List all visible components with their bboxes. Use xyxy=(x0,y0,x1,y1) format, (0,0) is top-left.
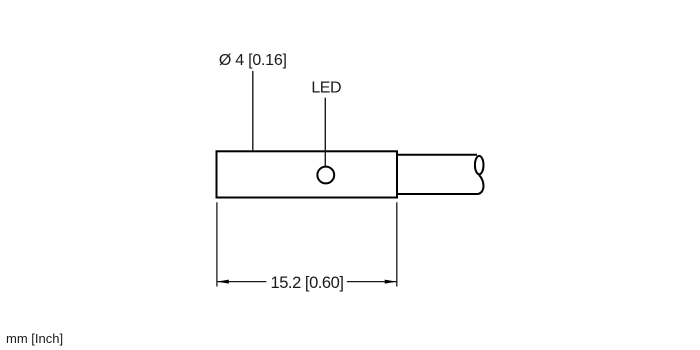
sensor body outline xyxy=(217,151,398,197)
svg-text:mm [Inch]: mm [Inch] xyxy=(6,331,63,346)
leader line from LED label to circle xyxy=(324,98,326,166)
right extension line xyxy=(396,202,398,286)
cable break loop xyxy=(475,156,484,174)
dimension line right segment xyxy=(347,281,397,283)
svg-text:LED: LED xyxy=(311,80,341,97)
leader line from diameter label to body xyxy=(252,71,254,150)
dimension line left segment xyxy=(217,281,266,283)
cable top line xyxy=(398,154,478,156)
left dimension arrow xyxy=(217,280,229,284)
LED indicator circle xyxy=(317,167,334,184)
svg-text:Ø 4 [0.16]: Ø 4 [0.16] xyxy=(219,52,287,69)
svg-text:15.2 [0.60]: 15.2 [0.60] xyxy=(270,274,343,292)
right dimension arrow xyxy=(385,280,397,284)
cable bottom line with break curve xyxy=(398,175,484,194)
left extension line xyxy=(216,202,218,286)
